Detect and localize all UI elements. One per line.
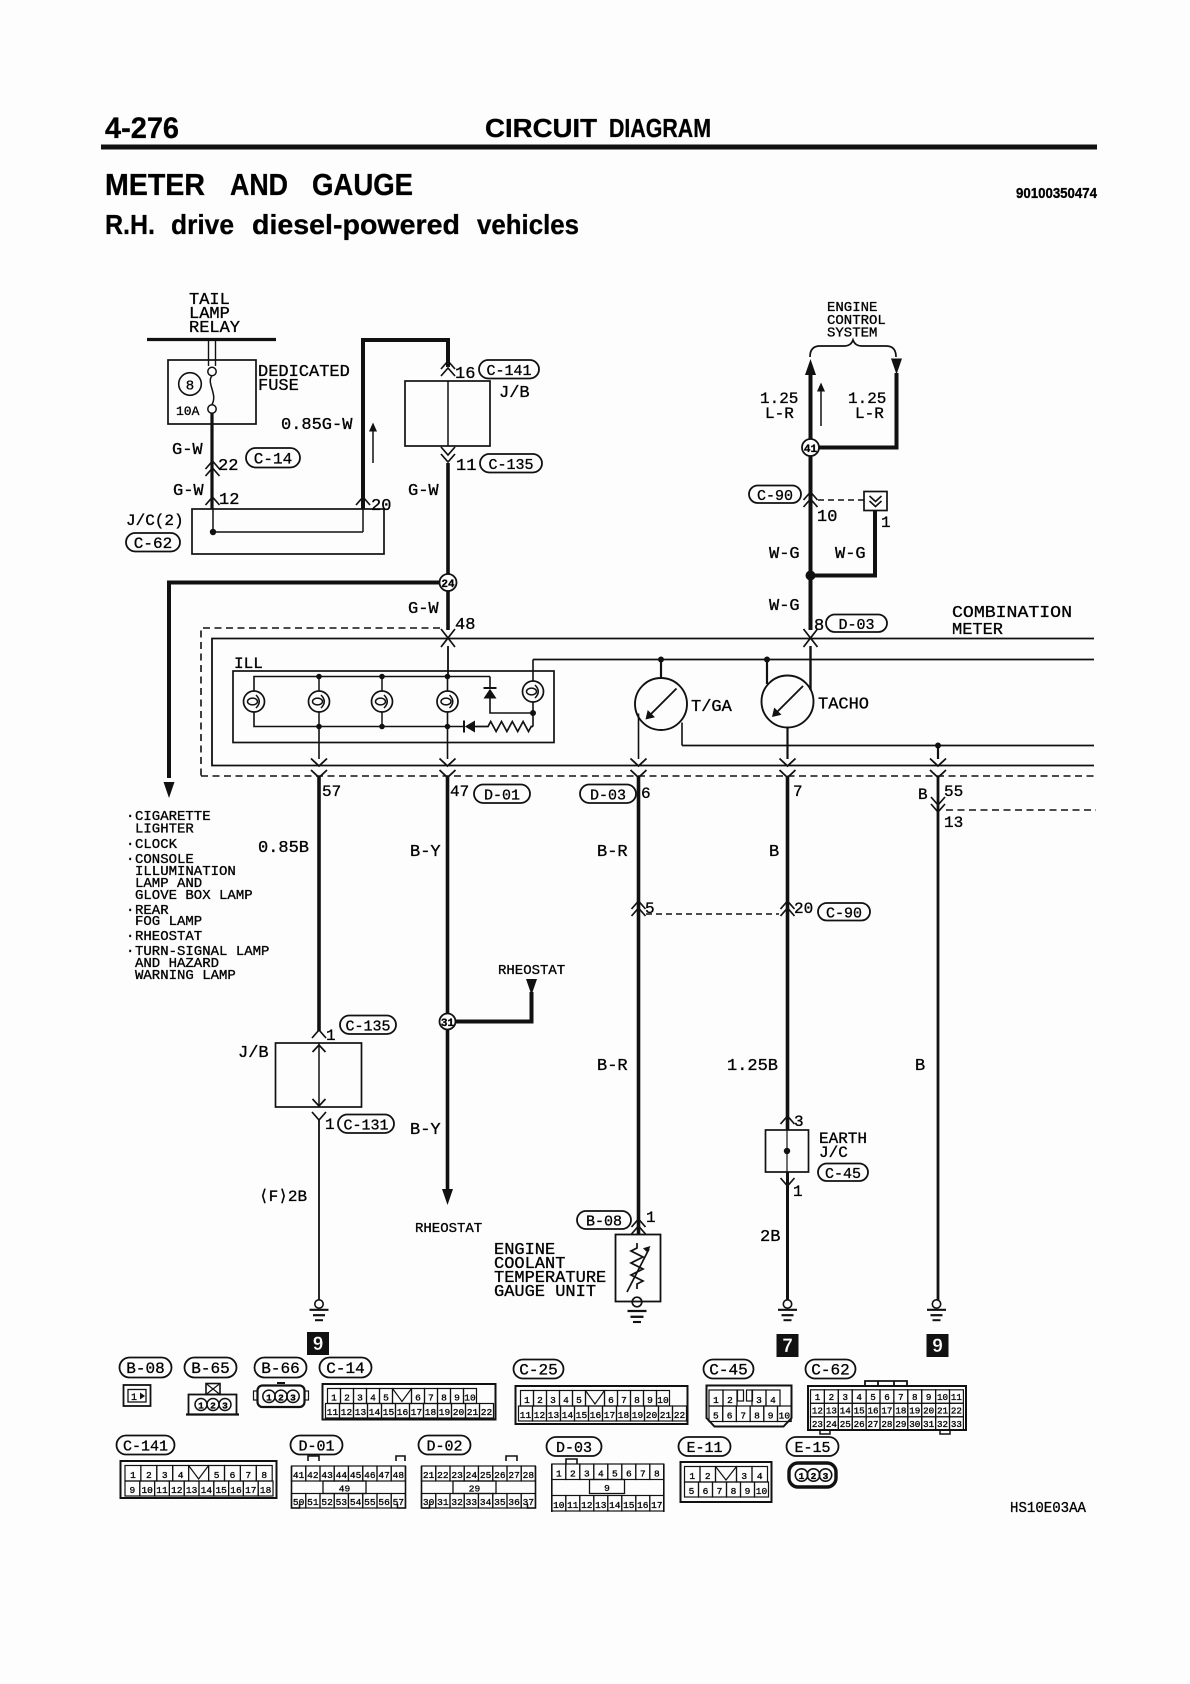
svg-text:RHEOSTAT: RHEOSTAT xyxy=(135,929,202,945)
wire B-R xyxy=(637,777,641,1234)
svg-text:2: 2 xyxy=(146,1470,152,1481)
svg-text:⟨F⟩2B: ⟨F⟩2B xyxy=(259,1188,307,1206)
cell 49 xyxy=(323,1481,366,1494)
svg-text:3: 3 xyxy=(222,1401,228,1412)
svg-text:W-G: W-G xyxy=(769,597,800,616)
connector label C-25 xyxy=(514,1360,564,1379)
svg-text:30: 30 xyxy=(909,1419,920,1430)
illumination lamp 4 xyxy=(437,691,458,712)
noise filter connector box xyxy=(864,492,887,511)
svg-text:28: 28 xyxy=(881,1419,892,1430)
svg-text:50: 50 xyxy=(293,1497,305,1508)
dashed continuation xyxy=(946,809,1096,811)
svg-text:7: 7 xyxy=(717,1486,723,1497)
svg-text:43: 43 xyxy=(321,1470,333,1481)
svg-text:7: 7 xyxy=(793,783,803,801)
svg-text:17: 17 xyxy=(604,1410,615,1421)
connector C-141 xyxy=(121,1461,277,1498)
svg-text:15: 15 xyxy=(623,1500,635,1511)
svg-text:13: 13 xyxy=(595,1500,607,1511)
svg-text:16: 16 xyxy=(868,1406,879,1417)
svg-text:6: 6 xyxy=(703,1486,709,1497)
svg-text:B-66: B-66 xyxy=(261,1360,299,1378)
svg-text:17: 17 xyxy=(881,1406,892,1417)
svg-text:3: 3 xyxy=(741,1471,747,1482)
svg-text:W-G: W-G xyxy=(835,545,866,564)
svg-text:CIRCUIT: CIRCUIT xyxy=(485,113,597,143)
connector label B-66 xyxy=(255,1358,307,1378)
connector label C-141 xyxy=(479,360,539,379)
svg-text:57: 57 xyxy=(393,1497,404,1508)
svg-text:10: 10 xyxy=(141,1485,153,1496)
connector label C-141 xyxy=(117,1436,175,1455)
ground 7 xyxy=(783,1300,791,1308)
svg-text:55: 55 xyxy=(364,1497,376,1508)
svg-text:14: 14 xyxy=(369,1407,381,1418)
svg-text:11: 11 xyxy=(567,1500,579,1511)
junction dot W-G xyxy=(806,571,816,581)
svg-text:5: 5 xyxy=(645,900,655,918)
svg-text:8: 8 xyxy=(634,1395,640,1406)
svg-text:·: · xyxy=(126,852,134,868)
svg-text:1: 1 xyxy=(713,1395,719,1406)
ground ref 7 xyxy=(777,1334,799,1357)
svg-text:35: 35 xyxy=(494,1497,506,1508)
svg-text:7: 7 xyxy=(621,1395,627,1406)
wire to interior loads xyxy=(169,583,440,779)
connector label E-15 xyxy=(787,1437,839,1456)
chevron 20 C-90 xyxy=(781,901,795,909)
svg-text:drive: drive xyxy=(171,209,234,240)
svg-text:5: 5 xyxy=(612,1468,618,1479)
svg-text:2: 2 xyxy=(811,1471,817,1482)
svg-text:7: 7 xyxy=(782,1336,793,1357)
connector B-08 xyxy=(577,1211,631,1229)
svg-text:10: 10 xyxy=(817,508,837,527)
svg-text:8: 8 xyxy=(261,1470,267,1481)
svg-text:90100350474: 90100350474 xyxy=(1016,185,1098,202)
ground 55 xyxy=(932,1300,940,1308)
tacho output lead xyxy=(786,728,788,760)
svg-text:GAUGE UNIT: GAUGE UNIT xyxy=(494,1283,596,1302)
svg-text:10: 10 xyxy=(937,1392,948,1403)
svg-text:55: 55 xyxy=(944,783,963,801)
wire 1.25 L-R in xyxy=(891,359,902,375)
svg-text:15: 15 xyxy=(215,1485,227,1496)
svg-text:56: 56 xyxy=(378,1497,390,1508)
svg-text:RHEOSTAT: RHEOSTAT xyxy=(498,963,565,979)
svg-text:4: 4 xyxy=(757,1471,763,1482)
svg-text:1: 1 xyxy=(131,1393,137,1404)
pin 20 chevron xyxy=(356,497,370,505)
svg-text:19: 19 xyxy=(909,1406,920,1417)
joint connector J/C(2) box xyxy=(192,509,384,554)
svg-text:32: 32 xyxy=(451,1497,463,1508)
connector C-25 xyxy=(516,1386,688,1424)
junction block J/B top xyxy=(405,381,490,446)
connector label C-45 xyxy=(704,1360,754,1379)
svg-text:12: 12 xyxy=(812,1406,823,1417)
svg-text:AND: AND xyxy=(230,168,288,202)
wire48 to ILL exit xyxy=(447,727,449,760)
svg-text:C-25: C-25 xyxy=(519,1362,557,1380)
svg-text:6: 6 xyxy=(415,1392,421,1403)
svg-text:ILL: ILL xyxy=(234,655,263,673)
connector label D-01 xyxy=(291,1436,343,1455)
svg-text:·: · xyxy=(126,944,134,960)
meter exit chevrons 47 xyxy=(440,759,456,767)
svg-text:13: 13 xyxy=(186,1485,198,1496)
svg-text:19: 19 xyxy=(632,1410,644,1421)
svg-text:B: B xyxy=(769,843,779,862)
wire G-W down to joint 24 xyxy=(446,463,450,574)
svg-text:33: 33 xyxy=(466,1497,478,1508)
svg-text:1: 1 xyxy=(793,1183,803,1201)
svg-text:33: 33 xyxy=(951,1419,962,1430)
svg-text:15: 15 xyxy=(576,1410,588,1421)
svg-text:5: 5 xyxy=(214,1470,220,1481)
svg-text:METER: METER xyxy=(105,168,205,202)
svg-text:6: 6 xyxy=(641,785,651,803)
pin 1 chevron xyxy=(781,1178,795,1186)
pin 1 chevron C-131 xyxy=(312,1112,326,1120)
svg-text:C-141: C-141 xyxy=(123,1439,168,1456)
svg-text:J/C: J/C xyxy=(819,1144,848,1162)
svg-text:J/B: J/B xyxy=(238,1044,269,1063)
svg-text:E-11: E-11 xyxy=(686,1440,722,1457)
svg-text:24: 24 xyxy=(441,579,455,591)
svg-text:B-Y: B-Y xyxy=(410,843,441,862)
wire B xyxy=(786,777,790,1130)
meter exit chevrons 6 xyxy=(631,759,647,767)
svg-text:31: 31 xyxy=(437,1497,449,1508)
svg-text:D-03: D-03 xyxy=(590,787,626,804)
svg-text:7: 7 xyxy=(428,1392,434,1403)
svg-text:21: 21 xyxy=(660,1410,672,1421)
svg-text:2: 2 xyxy=(570,1468,576,1479)
svg-text:18: 18 xyxy=(895,1406,906,1417)
svg-text:11: 11 xyxy=(951,1392,963,1403)
svg-text:1: 1 xyxy=(325,1116,335,1134)
svg-text:0.85G-W: 0.85G-W xyxy=(281,416,353,435)
svg-text:2: 2 xyxy=(537,1395,543,1406)
svg-text:8: 8 xyxy=(441,1392,447,1403)
svg-text:B-65: B-65 xyxy=(191,1360,229,1378)
svg-text:8: 8 xyxy=(814,617,824,636)
svg-text:5: 5 xyxy=(689,1486,695,1497)
svg-text:23: 23 xyxy=(451,1470,463,1481)
svg-text:25: 25 xyxy=(840,1419,851,1430)
wire G-W 48 xyxy=(446,591,450,630)
connector label D-02 xyxy=(419,1436,471,1455)
gauge unit case ground xyxy=(632,1297,642,1307)
illumination lamp 3 xyxy=(372,691,393,712)
svg-text:14: 14 xyxy=(562,1410,574,1421)
pin 12 chevron xyxy=(206,497,220,505)
combination meter outer dashed border xyxy=(201,628,440,776)
connector E-11 xyxy=(681,1462,772,1502)
svg-text:B-08: B-08 xyxy=(586,1214,622,1231)
svg-text:FUSE: FUSE xyxy=(258,377,299,396)
svg-text:16: 16 xyxy=(230,1485,242,1496)
svg-text:10: 10 xyxy=(657,1395,669,1406)
svg-text:G-W: G-W xyxy=(172,441,203,460)
connector C-62 xyxy=(865,1381,907,1386)
illumination lamp 2 xyxy=(309,691,330,712)
svg-text:27: 27 xyxy=(508,1470,519,1481)
engine coolant temperature gauge unit xyxy=(616,1235,661,1302)
svg-text:24: 24 xyxy=(826,1419,838,1430)
meter exit chevrons 7 xyxy=(780,759,796,767)
chevron 5 xyxy=(632,901,646,909)
svg-text:10A: 10A xyxy=(176,404,200,419)
connector C-14 xyxy=(323,1384,496,1420)
svg-text:31: 31 xyxy=(923,1419,935,1430)
svg-text:7: 7 xyxy=(740,1410,746,1421)
svg-text:32: 32 xyxy=(937,1419,948,1430)
connector label C-90 xyxy=(749,486,801,504)
svg-text:1: 1 xyxy=(130,1470,136,1481)
svg-text:9: 9 xyxy=(130,1485,136,1496)
ground ref 9 xyxy=(307,1332,329,1355)
connector E-15 xyxy=(789,1463,836,1487)
svg-text:11: 11 xyxy=(327,1407,339,1418)
svg-text:14: 14 xyxy=(840,1406,852,1417)
svg-text:22: 22 xyxy=(481,1407,493,1418)
svg-text:37: 37 xyxy=(523,1497,534,1508)
combination meter inner border xyxy=(212,639,1094,766)
rheostat resistor xyxy=(475,722,533,732)
svg-text:25: 25 xyxy=(480,1470,492,1481)
svg-text:13: 13 xyxy=(548,1410,560,1421)
svg-text:C-131: C-131 xyxy=(343,1117,388,1134)
meter internal bus to page edge xyxy=(682,745,1094,747)
svg-text:8: 8 xyxy=(731,1486,737,1497)
svg-text:·: · xyxy=(126,809,134,825)
joint 41 xyxy=(802,439,819,456)
node T/GA tap xyxy=(658,657,664,663)
svg-text:48: 48 xyxy=(393,1470,405,1481)
svg-text:R.H.: R.H. xyxy=(105,209,155,240)
svg-text:10: 10 xyxy=(553,1500,565,1511)
gauge output lead xyxy=(638,714,640,760)
svg-text:DIAGRAM: DIAGRAM xyxy=(609,115,711,143)
svg-text:12: 12 xyxy=(534,1410,546,1421)
svg-text:8: 8 xyxy=(912,1392,918,1403)
svg-text:6: 6 xyxy=(884,1392,890,1403)
svg-text:11: 11 xyxy=(156,1485,168,1496)
svg-text:26: 26 xyxy=(854,1419,865,1430)
svg-text:D-01: D-01 xyxy=(298,1439,334,1456)
svg-text:T/GA: T/GA xyxy=(691,698,733,717)
connector D-02 xyxy=(506,1456,517,1461)
ILL top bus xyxy=(254,677,490,692)
blocking diode xyxy=(463,721,465,733)
svg-text:WARNING LAMP: WARNING LAMP xyxy=(135,968,236,984)
svg-text:20: 20 xyxy=(646,1410,658,1421)
svg-text:8: 8 xyxy=(186,379,194,395)
svg-text:GAUGE: GAUGE xyxy=(312,168,413,202)
svg-text:16: 16 xyxy=(637,1500,649,1511)
wire 0.85B xyxy=(317,777,321,1031)
svg-text:29: 29 xyxy=(895,1419,906,1430)
svg-text:13: 13 xyxy=(944,814,963,832)
svg-text:3: 3 xyxy=(794,1113,804,1131)
svg-text:12: 12 xyxy=(219,491,239,510)
svg-text:J/B: J/B xyxy=(499,384,530,403)
svg-text:21: 21 xyxy=(467,1407,479,1418)
svg-text:4: 4 xyxy=(178,1470,184,1481)
meter entry 48 crossing xyxy=(441,629,455,647)
meter exit chevrons 57 xyxy=(311,759,327,767)
svg-text:2: 2 xyxy=(829,1392,835,1403)
svg-text:FOG LAMP: FOG LAMP xyxy=(135,914,202,930)
connector label D-03 xyxy=(580,785,636,804)
connector label E-11 xyxy=(679,1437,731,1456)
svg-text:11: 11 xyxy=(520,1410,532,1421)
svg-text:7: 7 xyxy=(245,1470,251,1481)
svg-text:RELAY: RELAY xyxy=(189,319,240,338)
svg-text:2: 2 xyxy=(344,1392,350,1403)
arrow to load list xyxy=(164,782,175,798)
earth joint connector xyxy=(766,1130,809,1172)
svg-text:SYSTEM: SYSTEM xyxy=(827,326,877,342)
svg-text:17: 17 xyxy=(245,1485,256,1496)
svg-text:METER: METER xyxy=(952,621,1003,640)
svg-text:L-R: L-R xyxy=(855,405,884,423)
svg-text:G-W: G-W xyxy=(173,482,204,501)
svg-text:HS10E03AA: HS10E03AA xyxy=(1010,1500,1086,1517)
direction arrow xyxy=(372,430,374,463)
svg-text:1: 1 xyxy=(331,1392,337,1403)
svg-text:27: 27 xyxy=(868,1419,879,1430)
wire 1.25 L-R out arrow xyxy=(805,359,816,375)
svg-text:GLOVE BOX LAMP: GLOVE BOX LAMP xyxy=(135,888,253,904)
svg-text:9: 9 xyxy=(313,1334,324,1355)
svg-text:29: 29 xyxy=(469,1484,481,1495)
svg-text:47: 47 xyxy=(378,1470,389,1481)
svg-text:9: 9 xyxy=(454,1392,460,1403)
svg-text:D-01: D-01 xyxy=(484,787,520,804)
wire B-Y xyxy=(446,777,450,1014)
svg-text:30: 30 xyxy=(423,1497,435,1508)
svg-text:4: 4 xyxy=(770,1395,776,1406)
svg-text:3: 3 xyxy=(162,1470,168,1481)
svg-text:10: 10 xyxy=(756,1486,768,1497)
svg-text:7: 7 xyxy=(898,1392,904,1403)
svg-text:5: 5 xyxy=(870,1392,876,1403)
gauge second lead xyxy=(681,723,683,746)
svg-text:3: 3 xyxy=(550,1395,556,1406)
svg-text:6: 6 xyxy=(230,1470,236,1481)
svg-text:9: 9 xyxy=(768,1410,774,1421)
svg-text:53: 53 xyxy=(336,1497,348,1508)
connector label C-45 xyxy=(818,1164,868,1182)
svg-text:46: 46 xyxy=(364,1470,376,1481)
svg-text:6: 6 xyxy=(626,1468,632,1479)
wire57 from ILL bus xyxy=(318,727,320,760)
svg-text:22: 22 xyxy=(437,1470,449,1481)
svg-text:B: B xyxy=(918,786,928,804)
svg-text:2: 2 xyxy=(210,1401,216,1412)
svg-text:20: 20 xyxy=(794,900,813,918)
svg-text:9: 9 xyxy=(647,1395,653,1406)
svg-text:26: 26 xyxy=(494,1470,506,1481)
svg-text:14: 14 xyxy=(201,1485,213,1496)
wire fuse output G-W xyxy=(210,413,213,509)
svg-text:15: 15 xyxy=(854,1406,865,1417)
svg-text:8: 8 xyxy=(654,1468,660,1479)
svg-text:4: 4 xyxy=(856,1392,862,1403)
svg-text:8: 8 xyxy=(754,1410,760,1421)
fuse element wire xyxy=(210,376,213,405)
svg-text:3: 3 xyxy=(756,1395,762,1406)
svg-text:22: 22 xyxy=(218,457,238,476)
connector D-01 xyxy=(308,1456,405,1461)
svg-text:D-03: D-03 xyxy=(838,617,874,634)
svg-text:B-R: B-R xyxy=(597,843,628,862)
illumination lamp 5 xyxy=(523,681,544,702)
connector label B-65 xyxy=(185,1358,237,1378)
svg-text:G-W: G-W xyxy=(408,482,439,501)
wire 0.85G-W riser xyxy=(363,340,448,509)
dashed link to diode connector xyxy=(818,499,864,501)
svg-text:C-135: C-135 xyxy=(345,1018,390,1035)
pin 3 chevron xyxy=(781,1116,795,1124)
svg-text:D-03: D-03 xyxy=(556,1440,592,1457)
svg-text:23: 23 xyxy=(812,1419,823,1430)
cell 29 xyxy=(453,1481,496,1494)
svg-text:diesel-powered: diesel-powered xyxy=(252,209,460,240)
svg-text:24: 24 xyxy=(466,1470,478,1481)
svg-text:5: 5 xyxy=(713,1410,719,1421)
wire W-G branch xyxy=(815,511,875,576)
meter exit chevrons 55 xyxy=(930,759,946,767)
svg-text:18: 18 xyxy=(618,1410,630,1421)
svg-text:16: 16 xyxy=(590,1410,602,1421)
svg-text:54: 54 xyxy=(350,1497,362,1508)
svg-text:D-02: D-02 xyxy=(426,1439,462,1456)
svg-text:17: 17 xyxy=(651,1500,662,1511)
svg-text:1: 1 xyxy=(646,1209,656,1227)
connector label C-14 xyxy=(320,1358,372,1378)
svg-text:13: 13 xyxy=(355,1407,367,1418)
connector chevrons 22 xyxy=(206,461,220,469)
ILL lamp group box xyxy=(233,671,554,743)
svg-text:CLOCK: CLOCK xyxy=(135,837,178,853)
meter entry 8 crossing xyxy=(804,629,818,647)
svg-text:B: B xyxy=(915,1057,925,1076)
relay bus bar xyxy=(147,338,276,341)
svg-text:12: 12 xyxy=(581,1500,593,1511)
cell 9 xyxy=(590,1480,625,1494)
svg-text:C-14: C-14 xyxy=(326,1360,364,1378)
connector B-65 xyxy=(206,1384,220,1395)
header rule xyxy=(101,145,1097,150)
joint 31 xyxy=(440,1014,456,1030)
svg-text:45: 45 xyxy=(350,1470,362,1481)
svg-text:·: · xyxy=(126,903,134,919)
wire B-Y to rheostat xyxy=(446,1030,450,1191)
svg-text:16: 16 xyxy=(397,1407,409,1418)
svg-text:·: · xyxy=(126,837,134,853)
meter top bus xyxy=(533,659,1094,661)
svg-text:28: 28 xyxy=(523,1470,535,1481)
svg-text:9: 9 xyxy=(926,1392,932,1403)
svg-text:15: 15 xyxy=(383,1407,395,1418)
svg-text:4: 4 xyxy=(563,1395,569,1406)
svg-text:34: 34 xyxy=(480,1497,492,1508)
